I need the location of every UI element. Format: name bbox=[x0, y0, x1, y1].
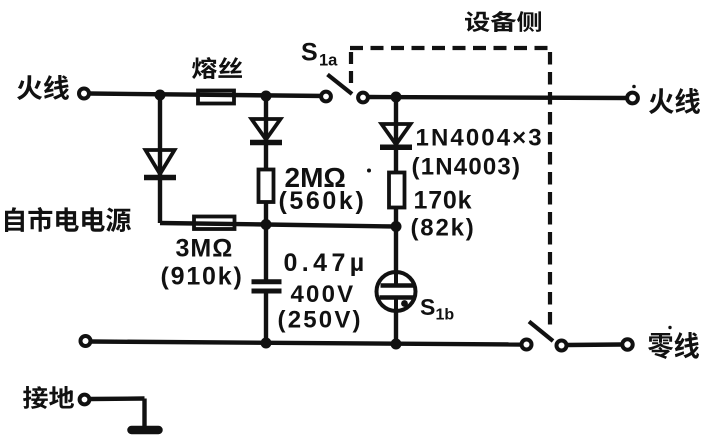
switch S1b blade (ganged) bbox=[529, 322, 553, 342]
switch S1a right contact bbox=[358, 93, 368, 103]
diode D1 (left branch) bbox=[146, 150, 175, 174]
dashed boundary: top edge (equipment side) bbox=[350, 46, 552, 50]
wire: column-2 to capacitor top bbox=[264, 225, 268, 282]
wire: earth lead horizontal bbox=[90, 396, 145, 401]
svg-text:(1N4003): (1N4003) bbox=[412, 154, 522, 181]
label: 零线 (neutral) right bbox=[648, 332, 699, 359]
label: 自市电电源 (from mains supply) bbox=[5, 207, 131, 232]
label: 设备侧 (equipment side) bbox=[465, 11, 541, 32]
dashed boundary: left edge bbox=[349, 52, 353, 89]
svg-text:0.47µ: 0.47µ bbox=[284, 249, 369, 277]
wire: top rail right segment bbox=[368, 97, 627, 98]
svg-text:3MΩ: 3MΩ bbox=[176, 235, 234, 263]
wire: earth lead vertical bbox=[142, 399, 146, 428]
terminal: neutral output (right) bbox=[622, 339, 632, 349]
svg-text:170k: 170k bbox=[414, 187, 473, 215]
fuse F1 (熔丝) bbox=[198, 91, 234, 104]
svg-text:S: S bbox=[420, 294, 435, 320]
ground symbol bar bbox=[132, 426, 159, 435]
terminal: neutral input (left) bbox=[81, 336, 91, 346]
wire: neon lamp bottom to neutral rail bbox=[394, 298, 398, 345]
junction: neutral rail / capacitor bbox=[261, 338, 272, 349]
svg-text:(910k): (910k) bbox=[161, 263, 244, 291]
terminal: live output (right) bbox=[627, 93, 638, 104]
junction: live rail / column-3 bbox=[391, 92, 402, 103]
svg-text:1N4004×3: 1N4004×3 bbox=[416, 125, 544, 152]
svg-text:(560k): (560k) bbox=[279, 187, 367, 215]
junction: neutral rail / neon lamp bbox=[391, 339, 402, 350]
label: 接地 (earth) bbox=[23, 386, 74, 409]
wire: middle rail left (through 3M resistor) bbox=[160, 223, 266, 225]
switch S1a blade bbox=[328, 75, 353, 95]
resistor R1 2M (560k) bbox=[259, 170, 274, 203]
switch S1a left contact bbox=[321, 92, 331, 102]
wire: top rail left segment (live) bbox=[89, 94, 326, 97]
resistor R3 3M (910k), in series on middle rail bbox=[194, 217, 235, 230]
svg-text:(250V): (250V) bbox=[278, 307, 363, 334]
wire: middle rail right bbox=[266, 225, 396, 227]
svg-text:(82k): (82k) bbox=[411, 215, 476, 242]
wire: capacitor bottom to neutral rail bbox=[264, 291, 268, 343]
wire: column-3 drop (diode/170k branch) bbox=[394, 97, 398, 272]
junction: middle rail / column-2 bbox=[261, 219, 272, 230]
wire: bottom neutral rail bbox=[90, 342, 522, 345]
wire: column-2 drop (diode/2M branch) bbox=[264, 96, 268, 225]
neon lamp NE (glow lamp) body bbox=[377, 272, 416, 311]
capacitor C1 0.47u 400V bbox=[252, 279, 282, 284]
terminal: earth (接地) bbox=[80, 395, 90, 405]
label: 火线 (live) right bbox=[649, 88, 700, 114]
wire: column-1 drop from live rail bbox=[158, 95, 162, 223]
neon lamp gas dot bbox=[401, 300, 408, 307]
neon lamp electrodes bbox=[381, 283, 415, 288]
svg-text:S: S bbox=[301, 39, 318, 67]
wire: neutral rail after switch S1b contact bbox=[567, 342, 622, 347]
junction: live rail / column-2 bbox=[261, 91, 272, 102]
label: 火线 (live) left bbox=[17, 75, 69, 100]
label: 熔丝 (fuse) bbox=[192, 57, 242, 79]
diode D3 1N4004x3 bbox=[382, 124, 411, 145]
junction: middle rail / 170k bottom bbox=[391, 221, 402, 232]
switch S1b left contact bbox=[522, 340, 532, 350]
junction: live rail / column-1 bbox=[155, 90, 166, 101]
(scan speck) bbox=[367, 169, 371, 173]
terminal: live input (left) bbox=[79, 89, 89, 99]
dashed boundary: right edge bbox=[548, 52, 552, 330]
svg-text:400V: 400V bbox=[291, 281, 356, 308]
svg-text:1b: 1b bbox=[436, 307, 455, 324]
switch S1b right contact bbox=[557, 341, 567, 351]
diode D2 (middle branch) bbox=[252, 119, 281, 140]
svg-text:1a: 1a bbox=[319, 52, 338, 70]
resistor R2 170k (82k) bbox=[389, 173, 405, 208]
